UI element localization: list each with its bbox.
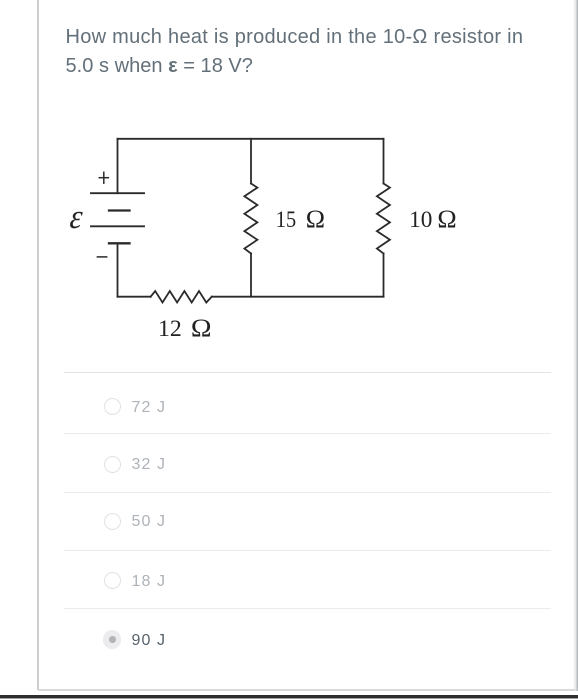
svg-text:12: 12 — [158, 316, 182, 342]
battery plus sign — [99, 172, 108, 183]
wire bottom rail right — [212, 296, 384, 298]
dark page divider bottom — [0, 695, 578, 698]
divider 5 — [64, 608, 551, 609]
svg-text:Ω: Ω — [191, 313, 212, 341]
option 72 J — [104, 398, 121, 415]
card right border — [573, 0, 578, 691]
svg-text:15: 15 — [276, 206, 296, 233]
divider 4 — [64, 550, 551, 551]
wire top rail — [118, 138, 384, 140]
resistor R 10 ohm zigzag — [377, 184, 390, 254]
svg-text:ε: ε — [68, 198, 84, 236]
light hairline under dark divider — [0, 698, 578, 699]
option 90 J selected — [103, 630, 121, 648]
wire left branch bottom — [117, 243, 119, 296]
wire left branch top — [117, 139, 119, 193]
wire middle branch bottom — [250, 254, 252, 297]
wire middle branch top — [250, 139, 252, 184]
resistor R 15 ohm zigzag — [244, 184, 257, 254]
wire right branch top — [383, 139, 385, 184]
wire bottom rail left — [118, 296, 151, 298]
battery EMF source plates — [91, 193, 144, 243]
svg-text:Ω: Ω — [306, 205, 325, 234]
resistor R 12 ohm zigzag — [151, 291, 212, 303]
option 50 J — [104, 513, 121, 530]
svg-text:Ω: Ω — [437, 205, 456, 234]
divider 2 — [64, 433, 551, 434]
option 18 J — [104, 572, 121, 589]
battery minus sign — [97, 256, 106, 258]
answers top divider — [64, 372, 551, 373]
card bottom border — [38, 689, 575, 691]
divider 3 — [64, 492, 551, 493]
option 32 J — [104, 456, 121, 473]
wire right branch bottom — [383, 254, 385, 297]
svg-text:10: 10 — [409, 207, 432, 233]
question text — [66, 23, 556, 82]
card left border — [37, 0, 39, 690]
